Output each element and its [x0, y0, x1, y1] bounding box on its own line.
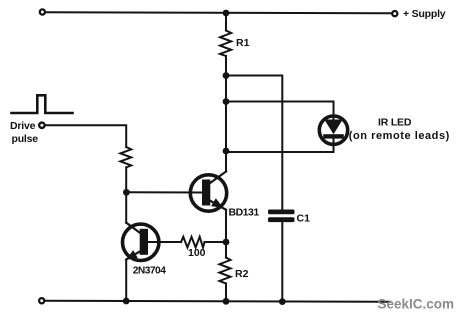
transistor 2N3704 emitter arrow: [128, 252, 137, 259]
wire resistor to node E: [125, 167, 127, 222]
wire 2N3704 base to 100R: [148, 241, 181, 243]
node: C1 at rail: [279, 298, 286, 305]
pulse waveform symbol: [12, 95, 73, 113]
wire LED branch horizontal+down: [226, 102, 334, 116]
transistor BD131 emitter diagonal: [208, 200, 226, 210]
svg-text:pulse: pulse: [12, 133, 39, 145]
transistor BD131 collector diagonal: [208, 172, 226, 185]
terminal top-left: [40, 9, 45, 14]
transistor U-BD131 circle: [190, 175, 226, 211]
capacitor C1: [268, 210, 295, 223]
wire from top rail to R1: [225, 13, 227, 31]
svg-text:R1: R1: [236, 37, 250, 49]
wire node E to BD131 base: [126, 191, 202, 193]
wire LED cathode down and left to collector node: [226, 144, 334, 152]
IR LED D1: [319, 116, 347, 144]
svg-text:IR LED: IR LED: [378, 116, 412, 128]
terminal drive pulse input: [39, 123, 44, 128]
transistor Q-2N3704 circle: [123, 224, 159, 260]
transistor BD131 base bar: [202, 180, 210, 206]
svg-text:R2: R2: [235, 268, 249, 280]
node: top rail junction: [223, 10, 230, 17]
svg-text:100: 100: [188, 247, 206, 259]
wire R2 bottom to ground rail: [225, 284, 227, 302]
svg-text:2N3704: 2N3704: [133, 265, 167, 276]
svg-text:C1: C1: [297, 213, 311, 225]
transistor 2N3704 base bar: [140, 229, 148, 255]
wire top rail: [46, 12, 392, 13]
svg-text:(on remote leads): (on remote leads): [349, 130, 450, 142]
node B: LED branch junction: [223, 98, 230, 105]
wire BD131 emitter to node D: [225, 210, 227, 258]
resistor 100: [181, 237, 205, 248]
node A: C1 branch junction: [223, 72, 230, 79]
terminal top-right (+ Supply): [392, 11, 397, 16]
terminal bottom-left: [39, 298, 44, 303]
wire bottom ground rail: [45, 301, 390, 302]
svg-text:Drive: Drive: [10, 120, 36, 132]
node D: emitter/100R/R2 junction: [223, 239, 230, 246]
svg-text:+ Supply: + Supply: [403, 8, 446, 20]
wire C1 branch horizontal: [226, 76, 282, 211]
transistor 2N3704 collector diagonal: [126, 223, 141, 234]
svg-text:SeekIC.com: SeekIC.com: [378, 297, 455, 312]
resistor R-drive: [120, 147, 131, 167]
transistor BD131 emitter arrow: [212, 200, 221, 207]
node E: base drive junction: [123, 189, 130, 196]
svg-text:BD131: BD131: [229, 207, 260, 219]
transistor 2N3704 emitter diagonal: [126, 251, 141, 260]
wire drive pulse to base resistor: [46, 125, 127, 147]
resistor R1: [220, 31, 231, 57]
wire 2N3704 emitter to ground rail: [125, 260, 127, 302]
wire 100R to node D: [205, 241, 227, 243]
wire R1 bottom to BD131 collector node: [225, 56, 227, 172]
node: 2N3704 emitter at rail: [123, 298, 130, 305]
node C: BD131 collector node: [223, 148, 230, 155]
wire C1 bottom to ground rail: [281, 222, 283, 301]
node: R2 at rail: [223, 298, 230, 305]
resistor R2: [219, 258, 230, 284]
